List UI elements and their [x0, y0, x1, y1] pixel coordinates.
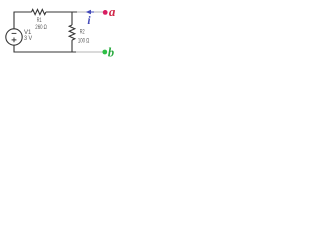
wire top horizontal left of R1: [14, 11, 32, 13]
terminal node a dot: [103, 10, 108, 15]
svg-text:3 V: 3 V: [24, 35, 33, 42]
resistor R1: [32, 9, 46, 14]
svg-text:b: b: [108, 45, 114, 59]
lead wire node to terminal b: [76, 51, 103, 53]
lead wire node to terminal a: [77, 11, 103, 13]
svg-text:R2: R2: [80, 29, 85, 36]
wire top horizontal right of R1 to node: [46, 11, 77, 13]
voltage source V1 circle: [6, 29, 22, 45]
terminal node b dot: [102, 50, 107, 55]
wire R2 top stub: [71, 12, 73, 26]
svg-text:260 Ω: 260 Ω: [35, 24, 47, 31]
svg-text:R1: R1: [37, 17, 42, 24]
wire R2 bottom stub: [71, 40, 73, 52]
resistor R2: [69, 25, 75, 40]
svg-text:a: a: [109, 4, 116, 19]
wire left vertical (source top to corner): [13, 12, 15, 29]
current arrow i: [86, 10, 91, 14]
wire bottom horizontal: [14, 51, 77, 53]
svg-text:100 Ω: 100 Ω: [78, 37, 90, 44]
minus sign: [12, 32, 17, 34]
current arrow tail: [91, 11, 95, 13]
plus sign: [12, 38, 17, 43]
svg-text:i: i: [87, 15, 91, 27]
wire left vertical (source bottom to corner): [13, 45, 15, 52]
